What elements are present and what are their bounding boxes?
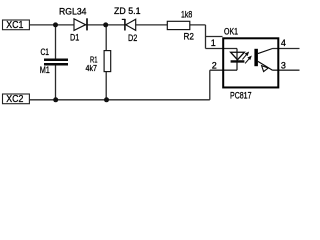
svg-text:4k7: 4k7 <box>86 63 98 73</box>
svg-text:D2: D2 <box>128 33 137 43</box>
svg-text:4: 4 <box>281 38 286 48</box>
svg-text:PC817: PC817 <box>230 90 252 100</box>
svg-text:ZD 5.1: ZD 5.1 <box>114 6 141 16</box>
svg-text:D1: D1 <box>70 33 79 43</box>
svg-text:1k8: 1k8 <box>181 9 192 19</box>
svg-text:C1: C1 <box>41 47 50 57</box>
svg-text:1: 1 <box>211 38 216 48</box>
svg-text:2: 2 <box>212 60 217 70</box>
svg-text:3: 3 <box>281 61 286 71</box>
svg-text:RGL34: RGL34 <box>59 7 87 17</box>
svg-text:M1: M1 <box>40 65 50 75</box>
svg-text:OK1: OK1 <box>224 27 238 37</box>
svg-text:XC2: XC2 <box>6 94 24 105</box>
svg-text:R2: R2 <box>184 32 195 42</box>
svg-text:XC1: XC1 <box>6 20 24 31</box>
